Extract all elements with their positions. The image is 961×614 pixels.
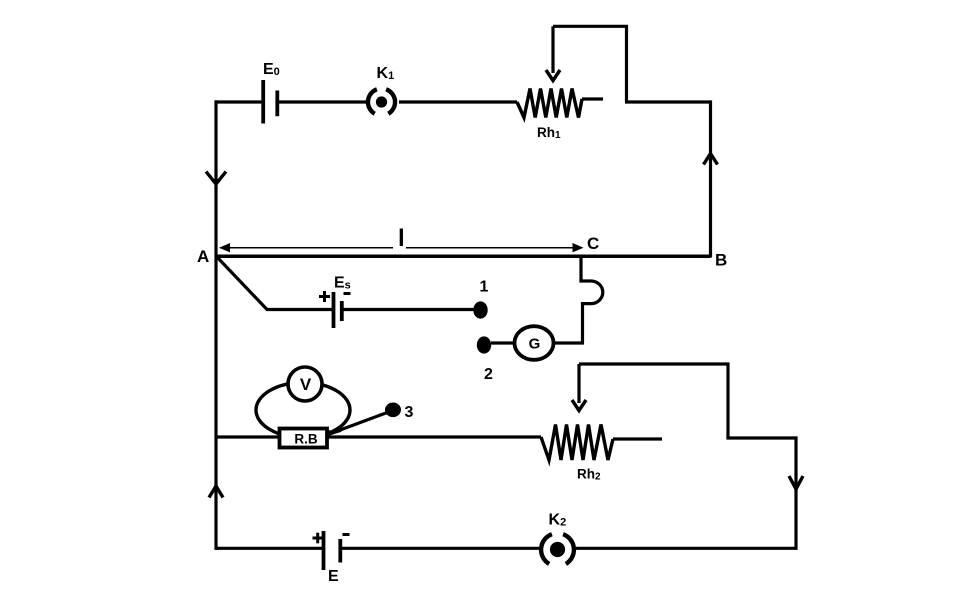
wire diagonal from A [217,257,268,310]
wire hook with crossing bump under C [581,255,603,344]
svg-text:E: E [328,568,339,585]
wire diagonal to Es battery [266,308,332,311]
wire K1 to Rh1 [399,100,517,103]
svg-text:C: C [587,234,599,253]
wire Rh1 bracket to right corner [625,100,711,103]
dimension line l left part [220,247,393,249]
battery E long plate [322,531,326,570]
arrow down on right vertical [789,476,803,489]
wire galvanometer to hook [554,341,585,344]
Rh1 wiper arrowhead [546,70,560,81]
battery E short plate [338,539,342,563]
Rh2 wiper arrow stem [577,364,580,403]
battery Es short plate [340,301,344,321]
Rh1 wiper arrow stem [551,26,554,73]
wire resistance box to Rh2 [326,435,541,438]
key K2 contact dot [550,542,565,557]
voltmeter loop ellipse [256,383,350,438]
Rh2 wiper top bracket wire [579,364,728,438]
dimension arrowhead right [573,243,584,252]
svg-text:G: G [529,336,541,353]
svg-text:A: A [197,247,209,266]
battery Es long plate [332,292,336,328]
wire A vertical to resistance box [216,435,281,438]
Rh1 wiper top bracket wire [553,26,627,102]
plus sign Es [319,291,330,302]
wire jockey diagonal to point 3 [328,412,390,435]
wire A to B main line [216,254,711,258]
svg-text:R.B: R.B [294,432,318,447]
dimension line l right part [406,247,574,249]
node point 1 [473,301,487,318]
galvanometer G [515,326,554,360]
rheostat Rh2 right tail wire [613,437,662,440]
wire point 2 to galvanometer [491,341,515,344]
wire E0 to K1 [279,100,366,103]
wire K2 to right corner [576,547,796,550]
node point 3 [385,403,401,418]
svg-text:V: V [300,375,312,394]
wire Es to point 1 [344,308,475,311]
battery E0 long plate [261,80,265,124]
plus sign E [313,533,324,544]
key K2 [541,534,574,564]
svg-text:3: 3 [405,404,414,421]
wire bottom horizontal left [216,547,322,550]
arrow up on left vertical lower [209,486,223,498]
node point 2 [477,336,491,353]
minus sign Es [344,292,351,295]
battery E0 short plate [275,91,279,117]
rheostat Rh1 right tail wire [582,97,603,100]
key K1 contact dot [376,96,387,107]
rheostat Rh1 zigzag [517,89,582,118]
wire bracket bottom to right vertical [726,436,796,439]
key K1 [368,89,395,113]
minus sign E [343,533,350,536]
arrow down on left vertical [206,172,226,185]
jockey junction wedge [327,430,342,436]
voltmeter V [288,367,322,401]
wire E to K2 [342,547,539,550]
svg-text:2: 2 [484,366,493,383]
dimension arrowhead left [219,243,230,252]
svg-text:l: l [398,225,405,252]
rheostat Rh2 zigzag [541,425,613,461]
wire top left horizontal [215,100,262,103]
Rh2 wiper arrowhead [572,400,586,411]
wire right vertical bottom loop [794,436,797,550]
arrow up on right vertical [704,154,718,165]
wire left vertical [214,100,217,550]
wire right vertical top loop [709,100,712,257]
svg-text:B: B [715,251,727,270]
resistance box R.B [280,429,328,448]
svg-text:1: 1 [480,279,489,296]
